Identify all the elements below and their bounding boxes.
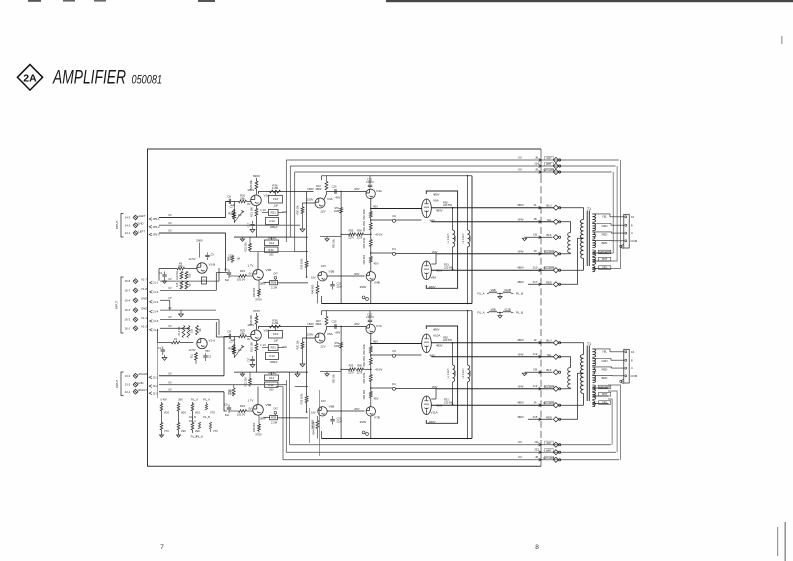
svg-text:BLK: BLK — [546, 368, 551, 372]
svg-text:600: 600 — [283, 345, 288, 349]
ground (R) — [522, 372, 528, 376]
svg-text:INPUT: INPUT — [115, 301, 119, 310]
wire BLU/WHT (R) — [431, 401, 583, 408]
ground — [162, 280, 166, 284]
resistor R31 (L) — [269, 210, 288, 216]
svg-text:BLU: BLU — [546, 339, 551, 343]
svg-text:V6B: V6B — [329, 405, 335, 409]
svg-text:150V: 150V — [307, 198, 314, 202]
resistor R22 (L) — [244, 237, 251, 252]
svg-text:16: 16 — [631, 215, 635, 219]
svg-text:R35 100k: R35 100k — [300, 393, 303, 404]
ground (L) — [320, 236, 341, 247]
transformer T1 label (R) — [587, 342, 591, 346]
node 180V (L) — [247, 188, 254, 192]
capacitor C18 (L) — [228, 255, 235, 261]
test point (R) — [362, 431, 368, 435]
svg-text:CB: CB — [533, 368, 537, 372]
node 16V (L) — [321, 264, 326, 268]
svg-text:2.2M: 2.2M — [272, 186, 279, 190]
svg-text:C2: C2 — [229, 340, 233, 344]
capacitor C3 — [203, 353, 211, 361]
tube V1-A — [197, 338, 215, 348]
capacitor C5 (L) — [224, 268, 231, 283]
svg-text:YEL: YEL — [602, 214, 608, 218]
svg-text:J4-3: J4-3 — [125, 216, 131, 220]
wire tap 16 (R) — [592, 349, 623, 352]
resistor R28 (L) — [229, 201, 242, 223]
svg-text:0V: 0V — [168, 324, 171, 328]
capacitor C17 (L) — [248, 221, 255, 229]
wire B+ rail (R) — [322, 310, 473, 312]
tube V2A (L) — [251, 194, 271, 206]
wire wrap vertical GRY/WHT bottom — [608, 385, 620, 460]
svg-text:0V: 0V — [168, 296, 171, 300]
resistor network col3 — [189, 398, 200, 439]
connector block (L) — [624, 214, 638, 248]
svg-text:C17: C17 — [248, 222, 251, 227]
svg-text:-60V: -60V — [354, 407, 360, 411]
wire feedback (R) — [341, 368, 383, 372]
svg-text:100 0V: 100 0V — [237, 277, 245, 281]
wire grid V2A (L) — [226, 201, 251, 205]
svg-text:.068uF: .068uF — [269, 360, 277, 364]
svg-text:-84V: -84V — [517, 384, 523, 388]
svg-text:V1-8: V1-8 — [141, 287, 147, 291]
resistor R31 (R) — [269, 345, 288, 351]
transformer secondary GRY/WHT (R) — [592, 385, 610, 391]
svg-text:JP5-3: JP5-3 — [153, 233, 161, 237]
transformer secondary BRN (R) — [592, 375, 607, 382]
wire mid vertical (R) — [306, 327, 316, 415]
ground (R) — [300, 349, 305, 367]
svg-text:J4: J4 — [533, 401, 536, 405]
svg-text:V1-B: V1-B — [209, 263, 216, 267]
wire gnd drop — [169, 300, 171, 310]
wire CB BLK (L) — [528, 233, 561, 240]
wire tap 4 (R) — [592, 367, 623, 368]
svg-text:C12: C12 — [269, 219, 275, 223]
svg-text:GND: GND — [141, 297, 147, 301]
svg-text:L2 2.2uH: L2 2.2uH — [462, 233, 465, 243]
tube V3A (L) — [307, 197, 333, 208]
scanner edge mark — [94, 0, 106, 2]
svg-text:45V: 45V — [373, 339, 378, 343]
potentiometer (L) — [235, 210, 244, 222]
test point (L) — [362, 296, 368, 300]
inductor L2 (R) — [462, 311, 472, 439]
wire drive upper (L) — [370, 204, 422, 209]
svg-text:C10: C10 — [273, 197, 279, 201]
svg-text:FIL_B: FIL_B — [203, 416, 210, 419]
svg-text:RED: RED — [546, 415, 552, 419]
svg-text:YEL: YEL — [602, 349, 608, 353]
svg-text:R22 300: R22 300 — [244, 242, 247, 252]
svg-text:R56: R56 — [357, 363, 362, 367]
wire cathode upper YEL (L) — [431, 217, 570, 232]
potentiometer (R) — [235, 345, 244, 357]
svg-text:J1: J1 — [533, 203, 536, 207]
svg-text:R15: R15 — [176, 282, 179, 287]
border frame — [148, 149, 542, 466]
svg-text:R64 600.5W: R64 600.5W — [314, 421, 316, 435]
svg-text:C14: C14 — [269, 376, 275, 380]
svg-text:480V: 480V — [517, 338, 524, 342]
capacitor C6 (R) — [370, 349, 396, 357]
node 1.7V (L) — [248, 264, 254, 268]
svg-text:290V: 290V — [360, 285, 367, 289]
resistor R17 — [185, 272, 191, 280]
svg-text:R64 600: R64 600 — [363, 389, 366, 399]
svg-text:0V: 0V — [168, 229, 171, 233]
svg-text:INPUT: INPUT — [115, 380, 119, 389]
wire GRY/WHT bottom — [283, 455, 619, 462]
node 180V (R) — [259, 417, 265, 421]
resistor R21 (L) — [249, 206, 266, 217]
svg-text:R21 180: R21 180 — [249, 342, 253, 352]
resistor R19 (L) — [237, 269, 247, 282]
resistor network col1 — [160, 398, 170, 438]
svg-text:0V: 0V — [168, 380, 171, 384]
svg-text:J11: J11 — [534, 440, 539, 444]
capacitor C17 (R) — [248, 356, 255, 364]
wire (L) — [234, 236, 308, 238]
svg-text:J6-4: J6-4 — [125, 298, 131, 302]
ground (L) — [240, 237, 244, 241]
wire CB BLK (R) — [528, 368, 561, 375]
transformer primary lower (R) — [580, 373, 583, 405]
resistor R26 (L) — [249, 179, 258, 189]
resistor R30 (L) — [297, 203, 326, 215]
connector J4-2 GND — [125, 221, 300, 229]
node -40V (R) — [335, 322, 360, 334]
transformer core (L) — [587, 211, 589, 267]
svg-text:V1-7: V1-7 — [141, 278, 147, 282]
ground (R) — [250, 365, 255, 368]
wire right border vertical — [540, 149, 542, 466]
svg-text:16V: 16V — [311, 410, 316, 414]
output tube V9A (L) — [422, 193, 453, 223]
wire drive upper (R) — [370, 339, 422, 344]
svg-text:J4-1: J4-1 — [125, 231, 131, 235]
svg-text:290V: 290V — [196, 238, 203, 242]
svg-text:0V: 0V — [248, 272, 251, 275]
wire V1A loop — [216, 320, 227, 338]
wire plate V2A (L) — [259, 192, 314, 194]
svg-text:J1-1: J1-1 — [153, 281, 159, 285]
svg-text:J3-1: J3-1 — [125, 390, 131, 394]
svg-text:R39 390: R39 390 — [253, 422, 256, 432]
svg-text:V9A: V9A — [433, 199, 439, 203]
filament jumper row 2 — [477, 307, 523, 318]
svg-text:R46 680: R46 680 — [311, 284, 314, 294]
transformer secondary YEL (L) — [592, 214, 607, 222]
svg-text:R19: R19 — [240, 269, 245, 273]
svg-text:C8: C8 — [227, 194, 231, 198]
svg-text:GND: GND — [137, 381, 143, 385]
scanner edge mark — [198, 0, 215, 2]
wire wrap vertical GRY top — [609, 160, 621, 269]
svg-text:V3B: V3B — [329, 270, 335, 274]
svg-text:V11B: V11B — [504, 307, 511, 311]
svg-text:-60V: -60V — [354, 272, 360, 276]
svg-text:R55: R55 — [349, 228, 354, 232]
capacitor C1 — [158, 346, 165, 355]
wire plate V3A (L) — [324, 192, 366, 200]
svg-text:.0033uF: .0033uF — [267, 372, 277, 375]
wire plate V2B (L) — [257, 252, 259, 270]
connector hook (R) — [620, 380, 624, 384]
wire GRY bottom — [290, 440, 611, 447]
wire plate V2A (R) — [259, 327, 314, 329]
svg-text:AMPLIFIER: AMPLIFIER — [52, 67, 126, 89]
svg-text:-40V: -40V — [353, 322, 359, 326]
tube V7B (R) — [360, 407, 380, 424]
resistor R46 (R) — [311, 416, 319, 439]
svg-text:0V: 0V — [518, 440, 522, 444]
svg-text:56k: 56k — [240, 196, 245, 200]
svg-text:R50 90k: R50 90k — [334, 238, 336, 247]
svg-text:J1-3: J1-3 — [153, 300, 159, 304]
svg-text:J32: J32 — [534, 448, 539, 452]
wire outer rect bottom (L) — [322, 303, 473, 305]
svg-text:12.5V: 12.5V — [188, 257, 195, 261]
svg-text:R39 390: R39 390 — [253, 287, 256, 297]
resistor network col2 — [177, 398, 187, 438]
tube V4A (L) — [366, 189, 383, 199]
svg-text:500: 500 — [269, 388, 274, 391]
wire tap COM (R) — [592, 374, 623, 376]
tube V6B (R) — [318, 405, 335, 416]
output tube V11A (R) — [422, 385, 454, 424]
svg-text:-84V: -84V — [517, 249, 523, 253]
resistor R39 (L) — [253, 280, 260, 297]
svg-text:GRN: GRN — [602, 224, 608, 228]
svg-text:C10: C10 — [273, 332, 279, 336]
svg-text:BLK: BLK — [546, 233, 551, 237]
resistor R52 (R) — [363, 343, 372, 354]
resistor R36 (R) — [270, 318, 281, 328]
svg-text:V1-A: V1-A — [209, 339, 216, 343]
inductor L2 (L) — [462, 176, 472, 304]
svg-text:220 5W: 220 5W — [444, 400, 453, 404]
wire inner box (R) — [426, 326, 457, 423]
svg-text:J3: J3 — [533, 249, 536, 253]
svg-text:0V: 0V — [168, 213, 171, 217]
wire outer box right (L) — [467, 175, 472, 304]
svg-text:6800: 6800 — [316, 187, 322, 191]
svg-text:J1-2: J1-2 — [153, 290, 159, 294]
connector J6-7 V1-8 — [125, 286, 217, 294]
tube V3B (L) — [318, 270, 335, 281]
svg-text:V10A: V10A — [433, 334, 440, 338]
wire tap 16 (L) — [592, 214, 623, 217]
svg-text:375V: 375V — [255, 298, 262, 302]
svg-text:+LEFT: +LEFT — [137, 214, 146, 218]
wire heater vertical 6 — [276, 387, 283, 460]
scanner edge mark — [386, 0, 793, 2]
capacitor C25 (L) — [332, 185, 337, 194]
svg-text:R1: R1 — [174, 337, 178, 341]
wire feedback (L) — [341, 233, 383, 237]
wire V1 block — [157, 329, 159, 398]
svg-text:D1: D1 — [392, 247, 396, 251]
svg-text:480V: 480V — [436, 343, 443, 347]
capacitor C8 (R) — [227, 329, 235, 342]
svg-text:V7A: V7A — [376, 324, 383, 328]
wire (L) — [229, 275, 253, 277]
transformer secondary YEL (R) — [592, 349, 607, 357]
svg-text:FIL_B: FIL_B — [516, 311, 523, 315]
resistor R21 (R) — [249, 341, 266, 352]
svg-text:0V: 0V — [168, 387, 171, 391]
svg-text:100k: 100k — [334, 345, 340, 348]
svg-text:28V: 28V — [178, 398, 183, 402]
svg-text:0V: 0V — [168, 286, 171, 290]
scanner edge mark — [781, 36, 783, 44]
svg-text:6800: 6800 — [316, 322, 322, 326]
ground — [179, 310, 184, 317]
resistor R63 (R) — [363, 365, 372, 384]
wire (R) — [370, 398, 372, 407]
svg-text:0V: 0V — [248, 407, 251, 410]
svg-text:V10B: V10B — [504, 288, 511, 292]
node 180V (R) — [247, 323, 254, 327]
wire B+ rail (L) — [322, 175, 473, 177]
svg-text:C5: C5 — [224, 268, 228, 272]
resistor R6 — [159, 262, 197, 280]
svg-text:050081: 050081 — [132, 75, 163, 87]
tube V5B (R) — [253, 403, 272, 415]
wire heater vertical 1 — [285, 160, 287, 242]
svg-text:16V: 16V — [321, 264, 326, 268]
svg-text:C25: C25 — [332, 185, 337, 189]
resistor R28 (R) — [229, 336, 242, 358]
svg-text:486V: 486V — [433, 328, 440, 332]
wire wrap vertical GRY bottom — [608, 399, 612, 445]
capacitor C14 (L) — [265, 237, 279, 245]
svg-text:600: 600 — [283, 210, 288, 214]
wire drive lower (R) — [396, 387, 437, 389]
svg-text:V11A: V11A — [431, 411, 438, 415]
tube V2B (L) — [253, 268, 272, 280]
transformer primary upper (L) — [580, 220, 583, 239]
svg-text:220 5W: 220 5W — [443, 338, 452, 342]
svg-text:C25: C25 — [332, 320, 337, 324]
svg-text:R38: R38 — [271, 416, 277, 420]
capacitor C22 (R) — [366, 311, 374, 324]
wire cathode V4B (L) — [370, 281, 372, 304]
bracket INPUT L — [115, 214, 124, 238]
transformer secondary BRN (L) — [592, 240, 607, 247]
wire outer box right (R) — [467, 310, 472, 439]
svg-text:0V: 0V — [168, 372, 171, 376]
connector J6-3 GND — [125, 306, 216, 314]
wire (R) — [229, 410, 253, 412]
svg-text:T1: T1 — [587, 342, 591, 346]
transformer secondary WHT (L) — [592, 257, 610, 264]
wire plate upper BLU (L) — [431, 203, 583, 219]
transformer secondary GRY/WHT (L) — [592, 250, 610, 256]
wire (L) — [250, 251, 308, 252]
svg-text:WHT: WHT — [602, 393, 608, 396]
tube V6A (R) — [307, 332, 333, 343]
wire (R) — [250, 386, 308, 387]
svg-text:R56: R56 — [357, 228, 362, 232]
svg-text:78V: 78V — [205, 349, 210, 353]
svg-text:COM: COM — [631, 374, 638, 378]
svg-text:J1-4: J1-4 — [153, 310, 159, 314]
svg-text:RED: RED — [602, 232, 608, 236]
svg-text:GND: GND — [137, 222, 143, 226]
wire (R) — [262, 347, 284, 349]
svg-text:R27: R27 — [228, 256, 231, 261]
svg-text:CB: CB — [533, 233, 537, 237]
svg-text:5uF: 5uF — [225, 414, 230, 417]
resistor R22 (R) — [244, 372, 251, 387]
svg-text:JP5-2: JP5-2 — [153, 225, 161, 229]
svg-text:J8: J8 — [533, 217, 536, 221]
svg-text:V8A: V8A — [431, 276, 437, 280]
svg-text:VEO: VEO — [195, 412, 200, 415]
svg-text:V8B: V8B — [490, 307, 495, 311]
svg-text:22V: 22V — [321, 210, 326, 214]
svg-text:2.2M: 2.2M — [271, 285, 278, 289]
svg-text:FIL_B: FIL_B — [189, 416, 196, 419]
svg-text:0V: 0V — [168, 221, 171, 225]
resistor R64 (L) — [363, 247, 379, 266]
svg-text:16V: 16V — [321, 399, 326, 403]
svg-text:R35 100k: R35 100k — [300, 258, 303, 269]
node -40V (L) — [335, 187, 360, 199]
svg-text:R50 90k: R50 90k — [334, 373, 336, 382]
capacitor C47 (R) — [273, 407, 278, 415]
svg-text:C8: C8 — [227, 329, 231, 333]
svg-text:R63 100k: R63 100k — [363, 237, 366, 248]
wire (R) — [256, 324, 258, 330]
svg-text:FIL_A: FIL_A — [477, 311, 484, 315]
svg-text:R19: R19 — [240, 404, 245, 408]
resistor R16 — [176, 270, 183, 280]
wire tap 4 (L) — [592, 232, 623, 233]
ground (L) — [250, 230, 255, 233]
connector J6-1 V1-2 — [125, 324, 190, 332]
svg-text:J6: J6 — [535, 155, 538, 159]
svg-text:45V: 45V — [374, 397, 379, 401]
svg-text:1M: 1M — [237, 258, 240, 261]
wire wrap vertical WHT bottom — [608, 391, 617, 452]
connector J6-2 V1-1 — [125, 315, 219, 323]
svg-text:0V: 0V — [518, 455, 522, 459]
connector J6-8 V1-7 — [125, 277, 219, 285]
svg-text:C14: C14 — [269, 241, 275, 245]
wire x309 drop — [309, 408, 311, 443]
svg-text:J5: J5 — [535, 167, 538, 171]
wire (R) — [234, 371, 308, 373]
capacitor D1 (R) — [370, 382, 396, 390]
svg-text:L1 2.2uH: L1 2.2uH — [447, 368, 450, 378]
svg-text:290V: 290V — [360, 420, 367, 424]
scanner edge mark — [777, 527, 778, 556]
transformer primary upper (R) — [580, 355, 583, 374]
connector J4-3 +LEFT — [125, 213, 226, 221]
svg-text:227k: 227k — [348, 236, 354, 239]
svg-text:480V: 480V — [517, 415, 524, 419]
scanner edge mark — [63, 0, 75, 2]
resistor R38 (L) — [270, 280, 278, 289]
connector J3-2 GND — [125, 380, 287, 388]
svg-text:R55: R55 — [349, 363, 354, 367]
